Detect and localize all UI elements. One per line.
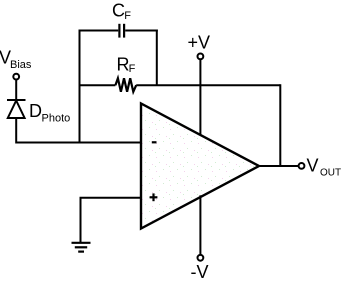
label Vout [307, 156, 341, 179]
svg-text:+V: +V [188, 33, 211, 53]
wire photodiode to inverting node [16, 118, 140, 143]
terminal +V [198, 54, 204, 60]
capacitor CF [119, 24, 124, 38]
svg-text:C: C [112, 1, 125, 21]
svg-text:F: F [124, 10, 131, 22]
resistor RF [115, 78, 136, 92]
svg-text:R: R [117, 54, 130, 74]
wire left node to resistor RF [79, 84, 116, 86]
label D_Photo [29, 101, 70, 125]
wire ground to noninverting input [81, 198, 142, 242]
label RF [117, 54, 136, 75]
svg-text:Bias: Bias [10, 59, 32, 71]
wire feedback left vertical [79, 30, 81, 143]
wire top to capacitor CF [79, 30, 119, 32]
svg-text:V: V [307, 156, 319, 176]
svg-text:Photo: Photo [42, 112, 71, 124]
svg-text:D: D [29, 101, 42, 121]
wire -V supply [199, 195, 201, 255]
pin minus [152, 141, 157, 143]
wire feedback right vertical [156, 30, 158, 86]
photodiode D_Photo [7, 100, 26, 118]
node Vbias label [0, 48, 32, 71]
terminal Vout [299, 163, 305, 169]
pin plus [150, 193, 158, 201]
svg-text:-V: -V [191, 262, 209, 282]
ground [72, 243, 91, 252]
terminal Vbias [13, 74, 19, 80]
svg-text:OUT: OUT [320, 168, 341, 179]
wire Vbias to photodiode [15, 80, 17, 100]
wire output [259, 165, 299, 167]
label CF [112, 1, 131, 22]
wire feedback vertical to output [279, 84, 281, 166]
svg-text:F: F [129, 63, 136, 75]
wire capacitor to right vertical [125, 30, 158, 32]
op-amp U1 [141, 104, 259, 229]
terminal -V [198, 255, 204, 261]
wire resistor to feedback node [136, 84, 280, 86]
wire +V supply [199, 60, 201, 135]
